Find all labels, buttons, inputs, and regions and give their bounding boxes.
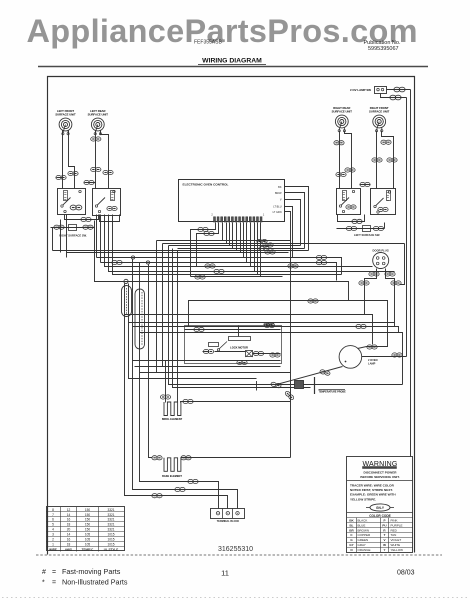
wire y366.5 bbox=[135, 366, 281, 368]
connector bbox=[160, 395, 170, 399]
bake element R2 bbox=[164, 458, 181, 472]
wire y280.5 from box2 loop bbox=[95, 221, 349, 301]
svg-text:Y: Y bbox=[383, 548, 385, 552]
wire y322 bbox=[129, 322, 395, 324]
connector in switch 4 bbox=[378, 207, 388, 211]
svg-text:RIGHT SURFACE SW.: RIGHT SURFACE SW. bbox=[59, 234, 87, 238]
cable sleeve 2 bbox=[135, 289, 145, 349]
svg-text:1: 1 bbox=[52, 542, 54, 546]
wire lamp sw bottom bbox=[381, 94, 407, 98]
wire bus y262.5 bbox=[101, 262, 247, 264]
connector bbox=[195, 275, 205, 279]
wire broil feed bbox=[165, 361, 167, 403]
connector in switch 3 bbox=[346, 205, 356, 209]
wire pin drop x240 bbox=[240, 223, 242, 253]
svg-text:105: 105 bbox=[85, 533, 91, 537]
wire pin drop x243.5 bbox=[243, 223, 245, 258]
svg-text:GY: GY bbox=[349, 543, 353, 547]
surface switch 1 (right surface sw) bbox=[58, 189, 86, 215]
svg-text:3: 3 bbox=[52, 533, 54, 537]
wire pin drop x222.5 bbox=[222, 223, 224, 241]
wire right bus lamp feed bbox=[406, 98, 408, 357]
wire pin drop x233 bbox=[232, 223, 234, 249]
connector bbox=[387, 158, 397, 162]
svg-text:WIRE: WIRE bbox=[49, 547, 57, 551]
connector bbox=[183, 399, 193, 403]
svg-text:1015: 1015 bbox=[107, 542, 114, 546]
connector bbox=[316, 261, 326, 265]
connector bbox=[392, 353, 402, 357]
svg-text:BL: BL bbox=[350, 523, 354, 527]
svg-text:SURFACE UNIT: SURFACE UNIT bbox=[55, 112, 76, 116]
connector bbox=[346, 226, 356, 230]
left rear surface unit bbox=[91, 118, 104, 135]
svg-text:7: 7 bbox=[52, 513, 54, 517]
connector bbox=[356, 324, 366, 328]
diagram border frame bbox=[48, 77, 415, 555]
svg-text:PINK: PINK bbox=[391, 519, 398, 523]
connector bbox=[91, 167, 101, 171]
wire y301 bbox=[189, 301, 388, 347]
svg-text:GRAY: GRAY bbox=[358, 543, 366, 547]
wire bus y250.5 bbox=[53, 250, 309, 252]
svg-text:6: 6 bbox=[52, 518, 54, 522]
svg-text:TAN: TAN bbox=[391, 533, 397, 537]
svg-text:DOOR PLUG: DOOR PLUG bbox=[373, 249, 389, 253]
wire x128.5 down bbox=[129, 284, 257, 379]
svg-text:WIRING DIAGRAM: WIRING DIAGRAM bbox=[202, 57, 262, 64]
connector bbox=[320, 369, 331, 376]
wire row end bend bbox=[384, 223, 386, 229]
svg-text:LEFT SURFACE SW.: LEFT SURFACE SW. bbox=[354, 233, 380, 237]
wire LF burner left lead bbox=[62, 131, 64, 189]
surface switch 4 bbox=[371, 189, 396, 215]
svg-text:COPPER: COPPER bbox=[358, 533, 372, 537]
wire x177.5 broil right feed bbox=[177, 251, 179, 402]
switch blade bbox=[219, 342, 227, 350]
probe jack bar bbox=[314, 377, 316, 394]
svg-text:316255310: 316255310 bbox=[218, 546, 253, 553]
node bbox=[217, 349, 219, 351]
pin row bbox=[214, 217, 216, 222]
svg-text:NOTED FIRST, STRIPE NEXT.: NOTED FIRST, STRIPE NEXT. bbox=[350, 488, 393, 492]
wire x156 down bbox=[156, 241, 158, 373]
surface switch 2 bbox=[93, 189, 121, 216]
svg-text:T: T bbox=[384, 533, 386, 537]
wire loop below switch 3 bbox=[338, 215, 365, 222]
wire pin drop x226 bbox=[226, 223, 228, 244]
connector bbox=[264, 322, 274, 326]
svg-text:1015: 1015 bbox=[107, 538, 114, 542]
svg-text:BROIL ELEMENT: BROIL ELEMENT bbox=[162, 418, 183, 421]
connector bbox=[204, 231, 214, 235]
svg-text:=: = bbox=[52, 569, 56, 576]
wire loop below switch 2 bbox=[100, 215, 120, 222]
cable sleeve 1 bbox=[122, 286, 132, 317]
wire box1 lead down bbox=[60, 220, 62, 253]
svg-text:YELLOW STRIPE.: YELLOW STRIPE. bbox=[350, 497, 376, 501]
svg-text:150: 150 bbox=[85, 518, 91, 522]
wire RR burner right lead bbox=[345, 131, 352, 189]
svg-text:08/03: 08/03 bbox=[397, 570, 415, 577]
svg-text:18: 18 bbox=[67, 523, 71, 527]
door plug connector bbox=[373, 253, 389, 269]
connector bbox=[84, 180, 94, 184]
svg-text:5: 5 bbox=[52, 523, 54, 527]
svg-text:BROWN: BROWN bbox=[358, 528, 370, 532]
broil element R1 bbox=[164, 402, 181, 416]
connector bbox=[56, 175, 66, 179]
svg-text:3321: 3321 bbox=[107, 528, 114, 532]
wire box2 lead2 down bbox=[100, 215, 102, 263]
connector bbox=[316, 255, 326, 259]
wire LR burner left lead bbox=[95, 131, 97, 189]
wire y243.5 drop at right bbox=[400, 244, 405, 285]
oven lamp L1 bbox=[339, 346, 362, 369]
wire pin drop x247 bbox=[246, 223, 248, 263]
wire pin drop x236.5 bbox=[236, 223, 238, 251]
svg-text:LT GRN: LT GRN bbox=[273, 211, 282, 214]
svg-text:3321: 3321 bbox=[107, 523, 114, 527]
wire x53 down from fuse row bbox=[52, 228, 54, 251]
wire bus y253 bbox=[67, 252, 289, 254]
wire box2 lead down bbox=[96, 215, 98, 258]
wire LR burner right lead bbox=[101, 131, 109, 189]
svg-text:12: 12 bbox=[67, 508, 71, 512]
wire cross link bbox=[85, 182, 96, 184]
svg-text:3321: 3321 bbox=[107, 513, 114, 517]
connector bbox=[334, 141, 344, 145]
wire y327 bbox=[133, 327, 399, 333]
svg-text:VIOLET: VIOLET bbox=[391, 538, 402, 542]
svg-text:1015: 1015 bbox=[107, 533, 114, 537]
svg-text:4: 4 bbox=[52, 528, 54, 532]
bottom dashed rule bbox=[36, 554, 442, 556]
wire broil exit bbox=[181, 402, 291, 403]
svg-text:LOCK MOTOR: LOCK MOTOR bbox=[230, 346, 248, 350]
svg-text:16: 16 bbox=[67, 538, 71, 542]
connector bbox=[152, 456, 162, 460]
connector bbox=[372, 158, 382, 162]
terminal tick bbox=[256, 381, 258, 391]
wire pin drop x229.5 bbox=[229, 223, 231, 246]
svg-text:WHITE: WHITE bbox=[391, 543, 401, 547]
lock assembly outline bbox=[185, 326, 282, 364]
connector bbox=[288, 264, 298, 268]
svg-text:20: 20 bbox=[67, 528, 71, 532]
door plug right lead bbox=[386, 269, 395, 327]
connector bbox=[83, 225, 93, 229]
wire RR burner left lead bbox=[339, 131, 341, 189]
svg-text:150: 150 bbox=[85, 508, 91, 512]
fuse block right bbox=[363, 226, 371, 232]
svg-text:GN-Y: GN-Y bbox=[376, 506, 385, 510]
svg-text:*: * bbox=[42, 580, 45, 587]
wire y332.5 bbox=[140, 333, 403, 385]
wire LF burner right lead bbox=[69, 131, 75, 189]
connector bbox=[284, 390, 294, 400]
svg-text:P: P bbox=[383, 519, 385, 523]
node J1 bbox=[131, 256, 134, 259]
terminal screw bbox=[216, 512, 219, 515]
connector bbox=[271, 382, 282, 389]
svg-text:SURFACE UNIT: SURFACE UNIT bbox=[332, 109, 353, 113]
svg-text:150: 150 bbox=[85, 523, 91, 527]
node J3 bbox=[124, 279, 128, 283]
fuse block bbox=[69, 225, 77, 231]
svg-text:=: = bbox=[52, 580, 56, 587]
electronic oven control U1 bbox=[179, 180, 285, 222]
wire bus y248.5 bbox=[178, 248, 305, 250]
svg-text:FEF355ASB: FEF355ASB bbox=[194, 40, 222, 46]
wire y314.5 bbox=[125, 315, 373, 345]
svg-text:Non-Illustrated Parts: Non-Illustrated Parts bbox=[62, 578, 128, 587]
svg-text:# OV LAMP SW: # OV LAMP SW bbox=[350, 88, 371, 92]
wire lamp top-right bbox=[358, 347, 373, 349]
wire lock links bbox=[203, 351, 209, 353]
wire lamp bottom diagonal bbox=[277, 367, 343, 385]
wire RF burner left lead bbox=[376, 131, 378, 189]
svg-text:GREEN: GREEN bbox=[358, 538, 369, 542]
wire pin1 fan left bbox=[191, 223, 216, 277]
connector bbox=[188, 479, 198, 483]
wire RF burner right lead bbox=[382, 131, 394, 189]
wire right bus neutral bbox=[410, 90, 412, 457]
wire y277 bbox=[191, 276, 283, 278]
svg-text:3321: 3321 bbox=[107, 508, 114, 512]
wire branch left bbox=[57, 177, 63, 179]
connector bbox=[360, 182, 370, 186]
svg-text:18: 18 bbox=[67, 542, 71, 546]
connector bbox=[270, 353, 280, 357]
wire y361 bbox=[133, 360, 281, 362]
header rule bbox=[38, 66, 428, 68]
wire row below right switches bbox=[337, 228, 385, 230]
connector bbox=[264, 323, 274, 327]
lock motor M1 bbox=[246, 351, 253, 357]
svg-text:BEFORE SERVICING UNIT.: BEFORE SERVICING UNIT. bbox=[360, 475, 399, 479]
svg-text:RED: RED bbox=[391, 528, 398, 532]
wire gauge table bbox=[47, 507, 125, 551]
svg-text:#: # bbox=[42, 569, 46, 576]
wire y262.5 extension right bbox=[247, 263, 337, 281]
connector bbox=[381, 140, 391, 144]
svg-text:PU: PU bbox=[382, 523, 386, 527]
connector bbox=[385, 272, 395, 276]
connector bbox=[194, 327, 204, 331]
wire bus y245.5 bbox=[169, 245, 301, 247]
lamp filament dot bbox=[345, 361, 347, 363]
svg-text:3321: 3321 bbox=[107, 518, 114, 522]
svg-text:BAKE ELEMENT: BAKE ELEMENT bbox=[162, 475, 182, 478]
wire pin drop x250.5 bbox=[250, 223, 252, 267]
terminal screw bbox=[236, 512, 239, 515]
connector bbox=[103, 170, 113, 174]
connector bbox=[308, 299, 318, 303]
wire link between switch 3 and 4 bbox=[360, 184, 371, 186]
wire bar feed bbox=[238, 326, 240, 337]
door plug left lead bbox=[365, 269, 377, 315]
svg-text:11: 11 bbox=[221, 569, 229, 578]
thermal fuse F1 bbox=[295, 381, 304, 389]
svg-text:LAMP: LAMP bbox=[368, 362, 376, 366]
svg-text:105: 105 bbox=[85, 538, 91, 542]
wire LT BLU from control bbox=[285, 207, 293, 258]
svg-text:SURFACE UNIT: SURFACE UNIT bbox=[369, 109, 390, 113]
svg-text:LT BLU: LT BLU bbox=[273, 206, 281, 209]
svg-text:TEMP°C: TEMP°C bbox=[82, 547, 95, 551]
wire assembly inner bbox=[185, 329, 281, 331]
svg-text:14: 14 bbox=[67, 533, 71, 537]
connector bbox=[263, 243, 273, 247]
svg-text:ELECTRONIC OVEN CONTROL: ELECTRONIC OVEN CONTROL bbox=[183, 183, 229, 187]
connector bbox=[391, 281, 401, 285]
svg-text:TERMINAL BLOCK: TERMINAL BLOCK bbox=[217, 520, 240, 523]
wire pin drop x257.5 bbox=[257, 223, 259, 275]
wire pin drop x254 bbox=[254, 223, 256, 272]
svg-text:EXAMPLE: GREEN WIRE WITH: EXAMPLE: GREEN WIRE WITH bbox=[350, 493, 396, 497]
connector bbox=[152, 494, 162, 498]
svg-text:TRACER WIRE: WIRE COLOR: TRACER WIRE: WIRE COLOR bbox=[350, 484, 395, 488]
wire pin2 fan left bbox=[197, 223, 219, 267]
wire x173 to probe stub bbox=[173, 249, 311, 388]
svg-text:150: 150 bbox=[85, 513, 91, 517]
warning box bbox=[347, 457, 413, 553]
connector bbox=[367, 345, 377, 349]
connector bbox=[369, 272, 379, 276]
connector bbox=[175, 487, 185, 491]
svg-text:2: 2 bbox=[52, 538, 54, 542]
svg-text:PURPLE: PURPLE bbox=[391, 523, 403, 527]
connector bbox=[359, 281, 369, 285]
svg-text:# OVEN: # OVEN bbox=[368, 358, 378, 362]
wire x133 down to terminal feed bbox=[133, 259, 238, 509]
svg-text:ORANGE: ORANGE bbox=[358, 548, 371, 552]
wire bus y243.5 bbox=[163, 243, 405, 245]
connector bbox=[259, 246, 269, 250]
wire BR/W from control bbox=[285, 193, 305, 249]
wire x148 down to bake bbox=[149, 265, 153, 458]
wire feed row bbox=[51, 227, 95, 229]
svg-text:UL STYLE: UL STYLE bbox=[104, 547, 118, 551]
left front surface unit bbox=[59, 118, 72, 135]
svg-text:V: V bbox=[383, 538, 385, 542]
svg-text:105: 105 bbox=[85, 542, 91, 546]
connector bbox=[181, 456, 191, 460]
connector bbox=[203, 349, 213, 353]
svg-text:16: 16 bbox=[67, 518, 71, 522]
svg-text:Fast-moving Parts: Fast-moving Parts bbox=[62, 567, 121, 576]
svg-text:W: W bbox=[383, 543, 386, 547]
terminal screw bbox=[226, 512, 229, 515]
wire x162 down bbox=[162, 244, 164, 367]
connector at switch 2 bbox=[107, 206, 117, 210]
wire y266 bbox=[105, 215, 373, 267]
connector bbox=[345, 168, 355, 172]
svg-text:SURFACE UNIT: SURFACE UNIT bbox=[88, 112, 109, 116]
svg-text:AppliancePartsPros.com: AppliancePartsPros.com bbox=[27, 13, 418, 49]
connector bbox=[390, 95, 401, 100]
wire bus y257.5 bbox=[97, 257, 293, 259]
svg-text:150: 150 bbox=[85, 528, 91, 532]
tracer example symbol bbox=[370, 504, 390, 511]
connector bbox=[68, 171, 78, 175]
connector bbox=[394, 87, 405, 92]
wire y372 bbox=[140, 372, 291, 374]
wire bake exit bbox=[181, 457, 291, 459]
right front surface unit bbox=[373, 115, 386, 132]
svg-text:BLUE: BLUE bbox=[358, 523, 366, 527]
wire y271.5 bbox=[109, 215, 395, 272]
connector bbox=[373, 226, 383, 230]
svg-text:14: 14 bbox=[67, 513, 71, 517]
connector bbox=[54, 225, 64, 229]
connector bbox=[237, 360, 247, 364]
node J2 bbox=[146, 261, 149, 264]
wire x168 to probe line bbox=[169, 246, 403, 385]
wire y257.5 extension right bbox=[293, 258, 342, 275]
connector bbox=[265, 250, 275, 254]
surface switch 3 (left surface sw) bbox=[337, 189, 361, 215]
connector bbox=[336, 172, 346, 176]
connector bbox=[253, 351, 263, 355]
wire lamp sw to right bus bbox=[387, 89, 411, 91]
relay bar bbox=[229, 337, 251, 341]
svg-text:TEMPERATURE PROBE: TEMPERATURE PROBE bbox=[319, 390, 347, 393]
connector pair in switch 1 bbox=[70, 205, 82, 210]
svg-text:YELLOW: YELLOW bbox=[391, 548, 404, 552]
connector bbox=[198, 227, 208, 231]
wire BK from control bbox=[285, 187, 309, 251]
wire bus y241 bbox=[157, 240, 291, 242]
svg-text:BK: BK bbox=[278, 186, 282, 189]
svg-text:8: 8 bbox=[52, 508, 54, 512]
wire box1 lead2 down bbox=[66, 215, 68, 258]
svg-text:BR/W: BR/W bbox=[275, 192, 282, 195]
relay coil box bbox=[209, 343, 219, 347]
wire y275 bbox=[113, 215, 342, 275]
connector stack right of pins bbox=[257, 239, 267, 243]
wire V from control bbox=[285, 200, 301, 246]
wire loop below switch 1 bbox=[65, 215, 99, 220]
svg-text:AWG: AWG bbox=[65, 547, 73, 551]
wire x139.5 down to terminal feed bbox=[140, 263, 219, 509]
connector bbox=[112, 260, 122, 264]
terminal block TB1 bbox=[211, 509, 245, 519]
connector bbox=[214, 269, 224, 273]
wire LT GRN from control bbox=[285, 212, 291, 458]
svg-text:5995395067: 5995395067 bbox=[368, 46, 399, 52]
wire pin drop x261 bbox=[260, 223, 262, 277]
wire x124 down to terminal feed bbox=[125, 284, 228, 509]
svg-text:BLACK: BLACK bbox=[358, 519, 368, 523]
connector bbox=[352, 219, 362, 223]
right rear surface unit bbox=[335, 115, 348, 132]
connector bbox=[91, 137, 101, 141]
connector bbox=[81, 217, 91, 221]
connector bbox=[205, 264, 215, 268]
wire lamp right to bus bbox=[362, 356, 407, 358]
